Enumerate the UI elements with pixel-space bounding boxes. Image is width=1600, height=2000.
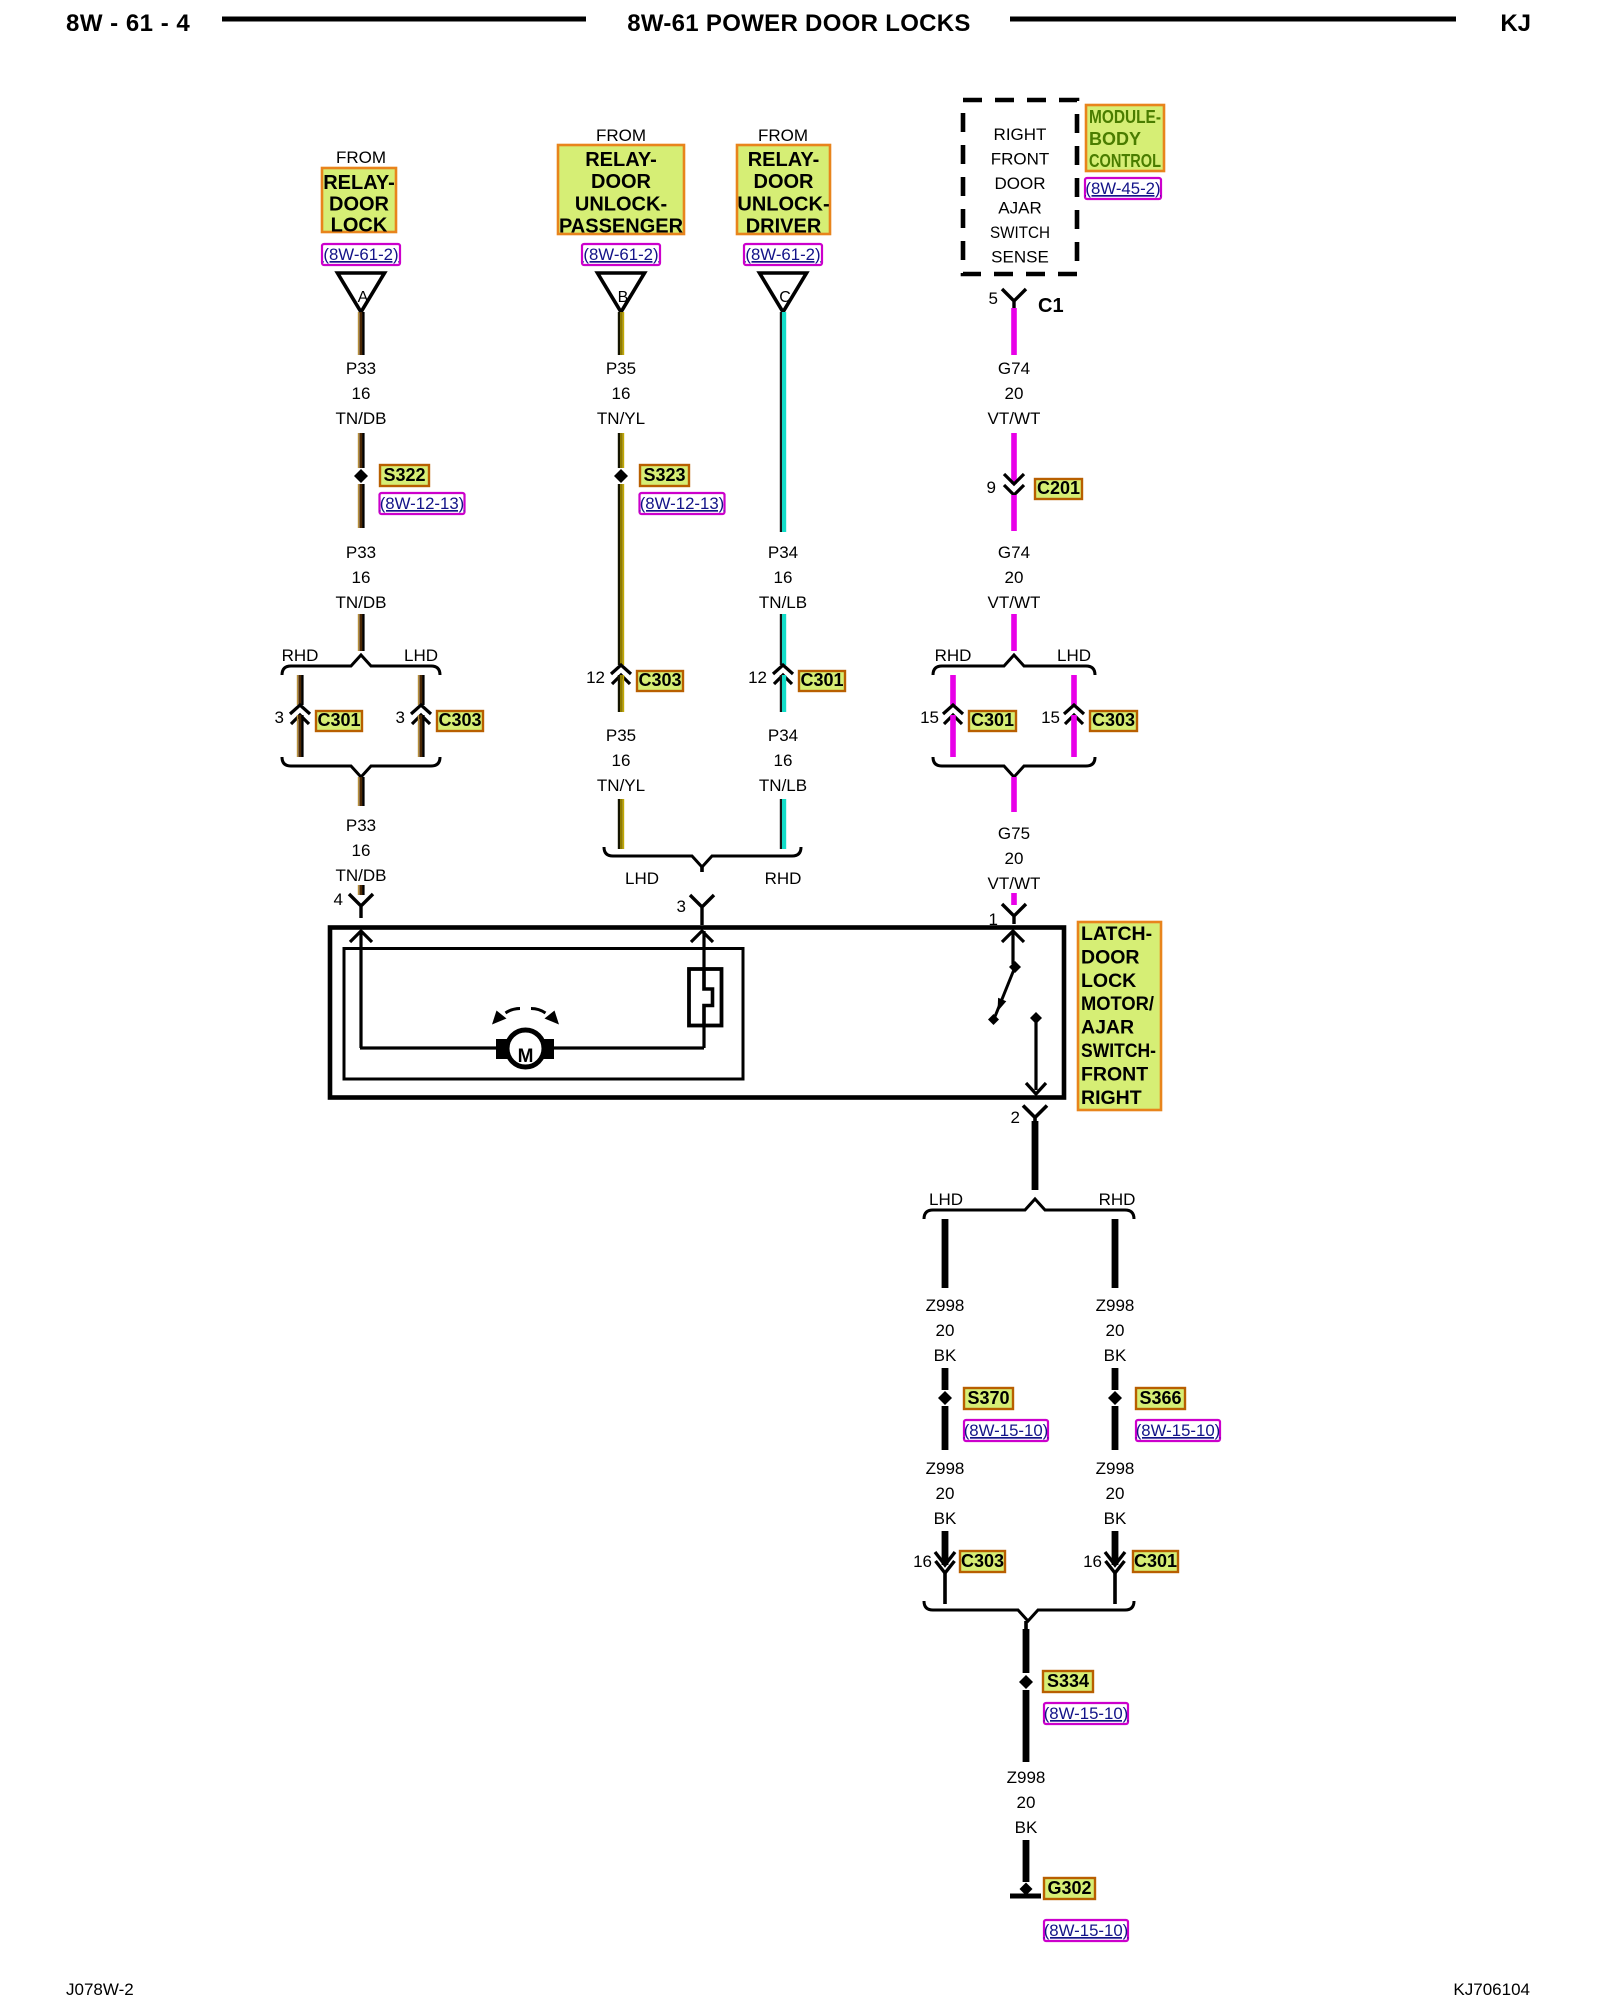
svg-text:VT/WT: VT/WT — [988, 593, 1041, 612]
svg-text:S366: S366 — [1139, 1388, 1181, 1408]
svg-text:C301: C301 — [971, 710, 1014, 730]
svg-text:FROM: FROM — [758, 126, 808, 145]
svg-text:VT/WT: VT/WT — [988, 874, 1041, 893]
svg-text:B: B — [618, 289, 629, 306]
svg-text:(8W-45-2): (8W-45-2) — [1085, 179, 1160, 198]
svg-text:12: 12 — [586, 668, 605, 687]
svg-text:16: 16 — [352, 384, 371, 403]
svg-text:(8W-12-13): (8W-12-13) — [640, 494, 725, 513]
svg-text:UNLOCK-: UNLOCK- — [737, 193, 829, 215]
svg-text:RHD: RHD — [765, 869, 802, 888]
svg-text:16: 16 — [352, 568, 371, 587]
svg-text:A: A — [358, 289, 369, 306]
svg-text:BK: BK — [934, 1346, 957, 1365]
svg-text:C201: C201 — [1037, 478, 1080, 498]
svg-text:Z998: Z998 — [1096, 1459, 1135, 1478]
svg-text:MOTOR/: MOTOR/ — [1081, 993, 1155, 1015]
svg-text:TN/YL: TN/YL — [597, 409, 645, 428]
svg-text:SWITCH-: SWITCH- — [1081, 1040, 1156, 1062]
svg-text:20: 20 — [1005, 849, 1024, 868]
svg-text:(8W-61-2): (8W-61-2) — [745, 245, 820, 264]
svg-text:20: 20 — [936, 1321, 955, 1340]
svg-text:LHD: LHD — [1057, 646, 1091, 665]
svg-text:P34: P34 — [768, 543, 798, 562]
svg-text:LHD: LHD — [929, 1190, 963, 1209]
svg-text:DOOR: DOOR — [591, 171, 652, 193]
svg-text:20: 20 — [1005, 568, 1024, 587]
svg-text:S370: S370 — [967, 1388, 1009, 1408]
svg-text:MODULE-: MODULE- — [1089, 107, 1161, 127]
svg-text:TN/LB: TN/LB — [759, 776, 807, 795]
svg-text:G302: G302 — [1047, 1878, 1091, 1898]
svg-text:BK: BK — [934, 1509, 957, 1528]
svg-text:5: 5 — [989, 289, 998, 308]
svg-text:16: 16 — [612, 751, 631, 770]
svg-text:Z998: Z998 — [1096, 1296, 1135, 1315]
svg-text:SWITCH: SWITCH — [990, 223, 1050, 242]
svg-text:RELAY-: RELAY- — [323, 172, 395, 194]
svg-text:(8W-15-10): (8W-15-10) — [1044, 1704, 1129, 1723]
svg-text:20: 20 — [1017, 1793, 1036, 1812]
svg-text:C1: C1 — [1038, 295, 1064, 317]
svg-text:DOOR: DOOR — [1081, 946, 1140, 968]
svg-text:C303: C303 — [1092, 710, 1135, 730]
svg-text:C: C — [779, 289, 791, 306]
svg-text:RHD: RHD — [935, 646, 972, 665]
svg-text:8W - 61 - 4: 8W - 61 - 4 — [66, 10, 190, 37]
svg-text:12: 12 — [748, 668, 767, 687]
svg-text:LHD: LHD — [625, 869, 659, 888]
svg-text:LOCK: LOCK — [331, 215, 388, 237]
svg-text:16: 16 — [352, 841, 371, 860]
svg-text:AJAR: AJAR — [998, 199, 1041, 218]
svg-text:VT/WT: VT/WT — [988, 409, 1041, 428]
svg-text:UNLOCK-: UNLOCK- — [575, 193, 667, 215]
svg-text:16: 16 — [913, 1552, 932, 1571]
svg-text:20: 20 — [1106, 1484, 1125, 1503]
svg-text:KJ706104: KJ706104 — [1453, 1980, 1530, 1999]
svg-text:CONTROL: CONTROL — [1089, 151, 1161, 171]
svg-text:RIGHT: RIGHT — [994, 125, 1047, 144]
svg-text:KJ: KJ — [1500, 10, 1531, 37]
svg-text:9: 9 — [987, 478, 996, 497]
svg-text:P33: P33 — [346, 816, 376, 835]
svg-text:20: 20 — [1106, 1321, 1125, 1340]
svg-text:P33: P33 — [346, 359, 376, 378]
svg-text:16: 16 — [774, 568, 793, 587]
svg-text:G74: G74 — [998, 359, 1030, 378]
svg-text:DRIVER: DRIVER — [746, 216, 822, 238]
svg-text:(8W-15-10): (8W-15-10) — [964, 1421, 1049, 1440]
svg-text:Z998: Z998 — [926, 1296, 965, 1315]
svg-text:RIGHT: RIGHT — [1081, 1087, 1142, 1109]
svg-text:S334: S334 — [1047, 1671, 1089, 1691]
svg-text:SENSE: SENSE — [991, 248, 1049, 267]
svg-text:RHD: RHD — [1099, 1190, 1136, 1209]
svg-text:AJAR: AJAR — [1081, 1017, 1134, 1039]
svg-text:8W-61 POWER DOOR LOCKS: 8W-61 POWER DOOR LOCKS — [627, 10, 970, 37]
svg-text:C301: C301 — [1134, 1551, 1177, 1571]
svg-text:BODY: BODY — [1089, 129, 1141, 149]
svg-text:RHD: RHD — [282, 646, 319, 665]
svg-text:TN/DB: TN/DB — [336, 866, 387, 885]
svg-text:3: 3 — [677, 897, 686, 916]
svg-text:15: 15 — [920, 708, 939, 727]
svg-text:C301: C301 — [317, 710, 360, 730]
svg-text:C301: C301 — [800, 670, 843, 690]
svg-text:20: 20 — [1005, 384, 1024, 403]
svg-text:LHD: LHD — [404, 646, 438, 665]
svg-text:3: 3 — [396, 708, 405, 727]
svg-text:G75: G75 — [998, 824, 1030, 843]
svg-text:DOOR: DOOR — [754, 171, 815, 193]
svg-text:16: 16 — [774, 751, 793, 770]
svg-text:BK: BK — [1104, 1346, 1127, 1365]
svg-text:C303: C303 — [961, 1551, 1004, 1571]
svg-text:(8W-61-2): (8W-61-2) — [583, 245, 658, 264]
svg-text:P35: P35 — [606, 359, 636, 378]
svg-text:(8W-15-10): (8W-15-10) — [1044, 1921, 1129, 1940]
svg-text:16: 16 — [612, 384, 631, 403]
svg-text:LATCH-: LATCH- — [1081, 923, 1152, 945]
svg-text:BK: BK — [1015, 1818, 1038, 1837]
svg-text:P35: P35 — [606, 726, 636, 745]
svg-text:C303: C303 — [638, 670, 681, 690]
svg-text:P33: P33 — [346, 543, 376, 562]
svg-text:P34: P34 — [768, 726, 798, 745]
svg-text:Z998: Z998 — [1007, 1768, 1046, 1787]
svg-text:4: 4 — [334, 890, 343, 909]
svg-text:RELAY-: RELAY- — [585, 149, 657, 171]
svg-text:FROM: FROM — [336, 148, 386, 167]
svg-text:DOOR: DOOR — [995, 174, 1046, 193]
svg-text:FRONT: FRONT — [991, 150, 1050, 169]
svg-text:M: M — [518, 1046, 534, 1067]
svg-text:S323: S323 — [643, 465, 685, 485]
svg-text:S322: S322 — [383, 465, 425, 485]
svg-text:TN/LB: TN/LB — [759, 593, 807, 612]
svg-text:DOOR: DOOR — [329, 193, 390, 215]
svg-text:16: 16 — [1083, 1552, 1102, 1571]
svg-text:FRONT: FRONT — [1081, 1063, 1148, 1085]
svg-text:TN/YL: TN/YL — [597, 776, 645, 795]
svg-text:(8W-12-13): (8W-12-13) — [380, 494, 465, 513]
svg-text:G74: G74 — [998, 543, 1030, 562]
svg-text:TN/DB: TN/DB — [336, 409, 387, 428]
svg-text:LOCK: LOCK — [1081, 970, 1136, 992]
svg-text:Z998: Z998 — [926, 1459, 965, 1478]
svg-text:J078W-2: J078W-2 — [66, 1980, 134, 1999]
svg-text:(8W-15-10): (8W-15-10) — [1136, 1421, 1221, 1440]
svg-text:3: 3 — [275, 708, 284, 727]
svg-text:15: 15 — [1041, 708, 1060, 727]
svg-text:PASSENGER: PASSENGER — [559, 216, 684, 238]
svg-text:20: 20 — [936, 1484, 955, 1503]
svg-text:(8W-61-2): (8W-61-2) — [323, 245, 398, 264]
svg-text:RELAY-: RELAY- — [748, 149, 820, 171]
svg-text:BK: BK — [1104, 1509, 1127, 1528]
svg-text:FROM: FROM — [596, 126, 646, 145]
svg-text:TN/DB: TN/DB — [336, 593, 387, 612]
svg-text:2: 2 — [1011, 1108, 1020, 1127]
svg-text:C303: C303 — [438, 710, 481, 730]
